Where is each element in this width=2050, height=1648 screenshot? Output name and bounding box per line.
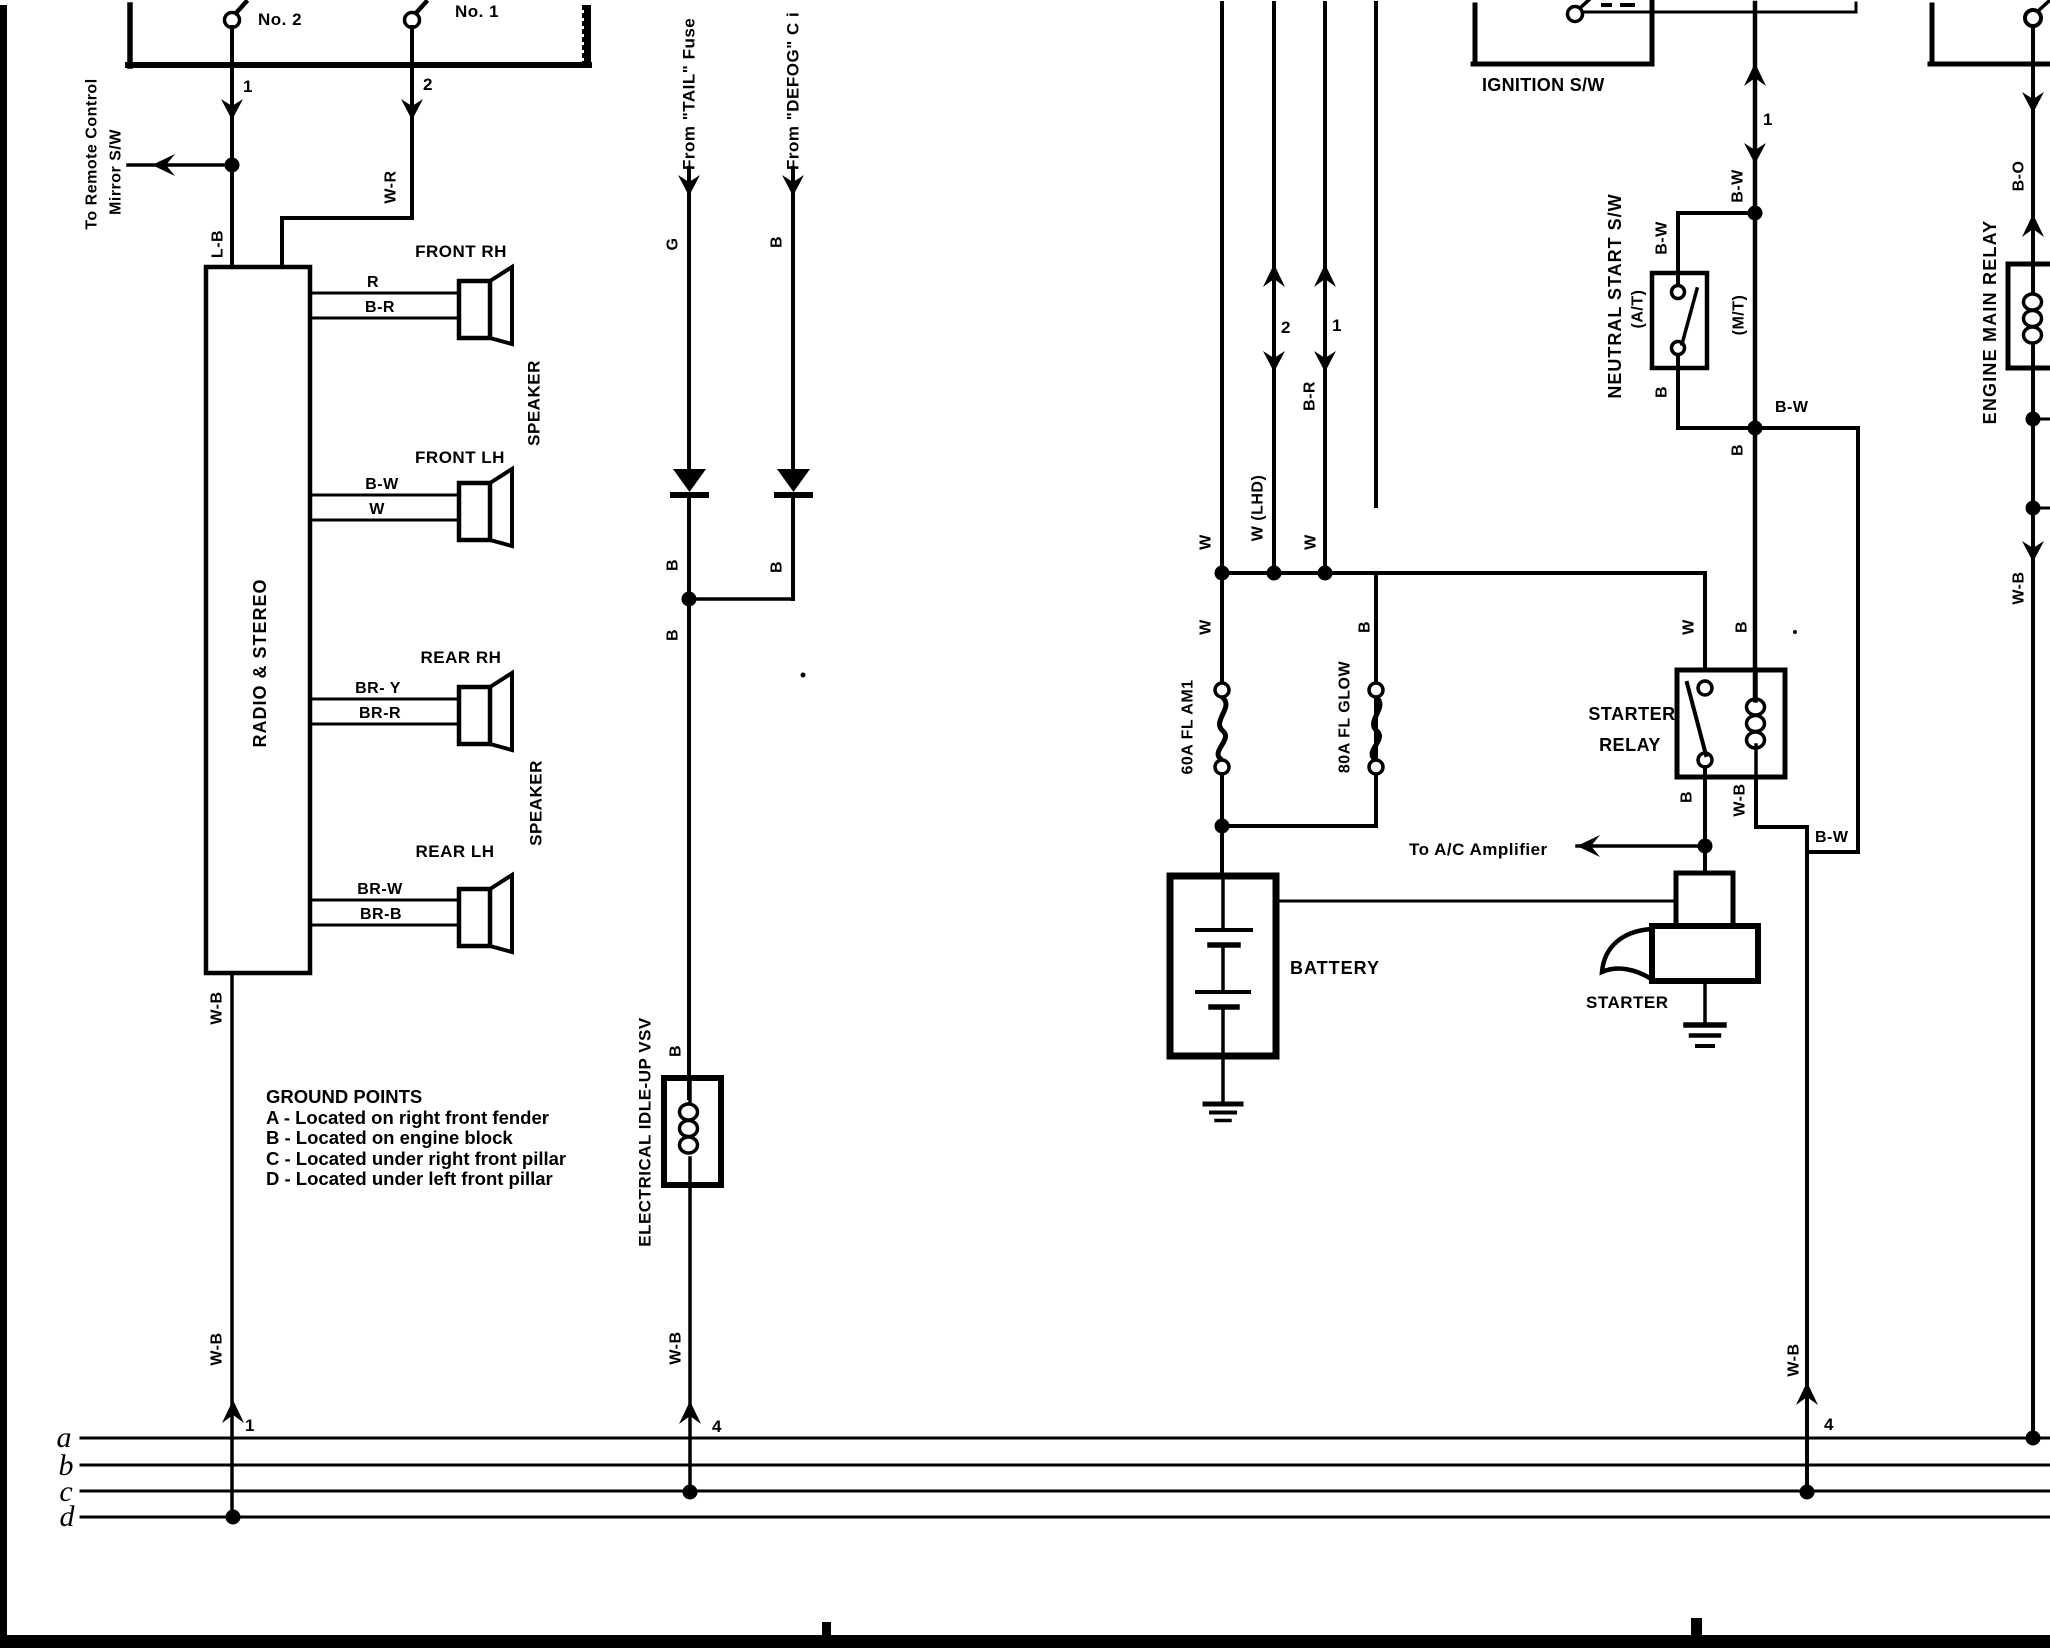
speck — [801, 673, 806, 678]
neutral start switch (A/T) — [1652, 273, 1707, 368]
switch box (top right, partial) — [1930, 5, 1935, 62]
svg-text:1: 1 — [243, 77, 253, 96]
fusible link 60A FL AM1 — [1220, 573, 1224, 683]
svg-text:B: B — [665, 559, 682, 571]
svg-text:B-W: B-W — [1815, 829, 1849, 846]
speaker REAR LH — [459, 889, 490, 946]
svg-text:ELECTRICAL IDLE-UP VSV: ELECTRICAL IDLE-UP VSV — [636, 1017, 655, 1247]
svg-text:W-R: W-R — [383, 170, 400, 203]
fusible link 80A FL GLOW — [1369, 683, 1383, 697]
svg-text:D - Located under left front p: D - Located under left front pillar — [266, 1168, 553, 1189]
svg-text:A - Located on right front fen: A - Located on right front fender — [266, 1107, 549, 1128]
svg-text:B: B — [668, 1045, 685, 1057]
wire B-W to front LH speaker — [310, 494, 459, 497]
radio and stereo unit box — [206, 267, 310, 973]
svg-text:No. 2: No. 2 — [258, 10, 302, 29]
wire W-B from relay coil to bus c — [1754, 777, 1758, 827]
wire W from bus to starter relay — [1703, 573, 1707, 670]
svg-text:d: d — [60, 1500, 76, 1533]
svg-text:REAR LH: REAR LH — [415, 842, 494, 861]
svg-text:4: 4 — [1824, 1415, 1834, 1434]
svg-text:G: G — [665, 238, 682, 251]
svg-text:B-W: B-W — [1775, 399, 1809, 416]
wire W (LHD) feed — [1272, 3, 1276, 573]
svg-text:B: B — [1730, 444, 1747, 456]
svg-text:To A/C Amplifier: To A/C Amplifier — [1409, 840, 1548, 859]
svg-text:BR-B: BR-B — [360, 906, 402, 923]
svg-text:ENGINE MAIN RELAY: ENGINE MAIN RELAY — [1980, 220, 2000, 425]
svg-text:(A/T): (A/T) — [1630, 290, 1647, 329]
svg-text:B-R: B-R — [365, 299, 395, 316]
wire BR-Y to rear RH speaker — [310, 698, 459, 701]
svg-text:B - Located on engine block: B - Located on engine block — [266, 1127, 513, 1148]
battery — [1170, 876, 1276, 1056]
bus W horizontal — [1222, 571, 1705, 575]
wire B feed 4 (upper) — [1374, 3, 1378, 506]
svg-text:W (LHD): W (LHD) — [1250, 475, 1267, 542]
svg-text:RELAY: RELAY — [1599, 735, 1661, 755]
svg-text:NEUTRAL START S/W: NEUTRAL START S/W — [1605, 193, 1625, 398]
wire BR-B to rear LH speaker — [310, 924, 459, 927]
bus c — [81, 1490, 2050, 1493]
junction on bus c — [683, 1485, 698, 1500]
wire to A/C amplifier — [1577, 844, 1705, 848]
wire from NSW to main line — [1676, 355, 1680, 428]
svg-text:SPEAKER: SPEAKER — [527, 760, 546, 846]
bus d — [81, 1516, 2050, 1519]
svg-text:1: 1 — [1332, 316, 1342, 335]
junction to neutral start switch — [1748, 206, 1763, 221]
fuse contact No. 2 — [225, 13, 240, 28]
engine main relay — [2008, 264, 2050, 368]
svg-text:B: B — [665, 629, 682, 641]
svg-text:60A FL AM1: 60A FL AM1 — [1180, 679, 1197, 774]
wire L-B from fuse No.2 to radio — [230, 27, 234, 162]
junction to A/C amplifier — [1698, 839, 1713, 854]
svg-text:From "TAIL" Fuse: From "TAIL" Fuse — [680, 18, 699, 170]
junction node to mirror switch — [225, 158, 240, 173]
junction below FL AM1 — [1215, 819, 1230, 834]
svg-text:B-O: B-O — [2011, 161, 2028, 192]
svg-text:W: W — [1303, 534, 1320, 550]
svg-text:W: W — [1681, 619, 1698, 635]
starter solenoid — [1676, 873, 1733, 926]
junction relay ground on bus c — [1800, 1485, 1815, 1500]
svg-text:W: W — [1198, 619, 1215, 635]
speaker REAR RH — [459, 687, 490, 744]
svg-text:IGNITION S/W: IGNITION S/W — [1482, 75, 1605, 95]
svg-text:STARTER: STARTER — [1588, 704, 1675, 724]
ignition switch contact — [1568, 7, 1583, 22]
wire to remote control mirror S/W — [128, 163, 232, 167]
svg-text:2: 2 — [423, 75, 433, 94]
svg-text:GROUND POINTS: GROUND POINTS — [266, 1086, 422, 1107]
wire W feed 3 — [1323, 3, 1327, 573]
svg-text:(M/T): (M/T) — [1731, 295, 1748, 336]
svg-text:STARTER: STARTER — [1586, 993, 1669, 1012]
wire W-B radio ground to bus d — [230, 973, 234, 1517]
svg-text:SPEAKER: SPEAKER — [525, 360, 544, 446]
svg-text:1: 1 — [245, 1416, 255, 1435]
svg-text:Mirror S/W: Mirror S/W — [108, 129, 125, 215]
junction stub 1 — [2026, 412, 2041, 427]
battery ground — [1205, 1102, 1241, 1107]
node B junction — [682, 592, 697, 607]
svg-text:B-W: B-W — [1654, 221, 1671, 255]
wire W-R from fuse No.1 to radio — [410, 27, 414, 218]
junction stub 2 — [2026, 501, 2041, 516]
wire W feed 1 (left) — [1220, 3, 1224, 573]
wire W to front LH speaker — [310, 519, 459, 522]
svg-text:BATTERY: BATTERY — [1290, 958, 1380, 978]
wire B feed 4 (lower) — [1374, 573, 1378, 826]
svg-text:4: 4 — [712, 1417, 722, 1436]
svg-text:B-W: B-W — [1730, 169, 1747, 203]
wire B from relay to starter — [1703, 767, 1707, 873]
starter ground — [1703, 981, 1707, 1023]
svg-text:B: B — [1357, 621, 1374, 633]
svg-text:FRONT RH: FRONT RH — [415, 242, 507, 261]
wire B-W branch right — [1755, 426, 1858, 430]
svg-text:W-B: W-B — [2011, 571, 2028, 604]
starter nose — [1602, 929, 1653, 980]
junction B-W to starter relay coil — [1748, 421, 1763, 436]
svg-text:W-B: W-B — [668, 1331, 685, 1364]
diode (TAIL feed) — [673, 469, 706, 492]
svg-text:L-B: L-B — [210, 230, 227, 258]
svg-text:B-R: B-R — [1302, 381, 1319, 411]
wire BR-W to rear LH speaker — [310, 899, 459, 902]
svg-text:REAR RH: REAR RH — [421, 648, 502, 667]
svg-text:To Remote Control: To Remote Control — [84, 78, 101, 229]
fuse contact No. 1 — [405, 13, 420, 28]
starter relay — [1677, 670, 1785, 777]
wire joining DEFOG branch — [689, 597, 793, 601]
svg-text:W: W — [1198, 534, 1215, 550]
svg-text:W-B: W-B — [209, 1332, 226, 1365]
svg-text:RADIO & STEREO: RADIO & STEREO — [250, 578, 270, 747]
svg-text:B-W: B-W — [365, 476, 399, 493]
svg-text:R: R — [367, 274, 379, 291]
svg-text:C - Located under right front: C - Located under right front pillar — [266, 1148, 566, 1169]
svg-text:B: B — [769, 236, 786, 248]
wire B-O ignition to engine main relay — [2031, 26, 2035, 292]
bus a — [81, 1437, 2050, 1440]
wire B-W starter control — [1753, 3, 1758, 700]
wire BR-R to rear RH speaker — [310, 723, 459, 726]
svg-text:W-B: W-B — [1786, 1343, 1803, 1376]
wire battery to starter solenoid — [1276, 900, 1676, 903]
svg-text:B: B — [1734, 621, 1751, 633]
starter motor — [1652, 926, 1758, 981]
ignition switch output wire — [1583, 11, 1856, 14]
svg-text:BR- Y: BR- Y — [355, 680, 401, 697]
wire W-B from VSV to bus c — [688, 1185, 692, 1492]
wire R to front RH speaker — [310, 292, 459, 295]
svg-text:W-B: W-B — [209, 991, 226, 1024]
svg-text:80A FL GLOW: 80A FL GLOW — [1337, 661, 1354, 774]
wire B-R to front RH speaker — [310, 317, 459, 320]
speaker FRONT LH — [459, 483, 490, 540]
junction block box (top left, partial) — [127, 5, 133, 66]
svg-text:2: 2 — [1281, 318, 1291, 337]
svg-text:From "DEFOG" C i: From "DEFOG" C i — [784, 12, 803, 170]
junction on bus a — [2026, 1431, 2041, 1446]
svg-text:No. 1: No. 1 — [455, 2, 499, 21]
junction on bus d — [226, 1510, 241, 1525]
speaker FRONT RH — [459, 281, 490, 338]
wire B to electrical idle-up VSV — [687, 599, 691, 1098]
svg-text:BR-R: BR-R — [359, 705, 401, 722]
bus b — [81, 1464, 2050, 1467]
speck 2 — [1793, 630, 1797, 634]
svg-text:1: 1 — [1763, 110, 1773, 129]
svg-text:BR-W: BR-W — [357, 881, 403, 898]
svg-text:W: W — [369, 501, 385, 518]
svg-text:B: B — [1679, 791, 1696, 803]
ignition switch box — [1473, 5, 1478, 62]
svg-text:W-B: W-B — [1732, 783, 1749, 816]
wire W-B to bus a — [2022, 541, 2044, 562]
electrical idle-up VSV — [664, 1078, 721, 1185]
switch contact (top right) — [2025, 10, 2041, 26]
svg-text:B: B — [769, 561, 786, 573]
svg-text:FRONT LH: FRONT LH — [415, 448, 505, 467]
diode (DEFOG feed) — [777, 469, 810, 492]
svg-text:B: B — [1654, 386, 1671, 398]
